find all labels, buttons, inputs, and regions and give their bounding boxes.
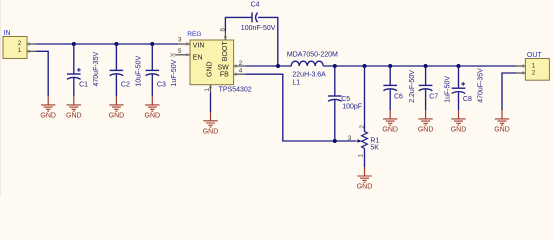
- pin 5 EN with no-connect X: [170, 48, 202, 61]
- svg-text:C3: C3: [157, 81, 166, 88]
- svg-text:100pF: 100pF: [342, 104, 362, 111]
- ground (R1): [357, 167, 373, 190]
- svg-text:100nF-50V: 100nF-50V: [241, 25, 276, 32]
- ground (C2): [109, 96, 125, 119]
- svg-text:3: 3: [178, 37, 182, 44]
- junction C2 on input rail: [114, 42, 118, 46]
- ground (C8): [451, 110, 467, 133]
- svg-text:10uF-50V: 10uF-50V: [135, 55, 142, 86]
- inductor L1 MDA7050-220M: [287, 52, 338, 87]
- capacitor C1 470uF-35V polarized: [67, 44, 100, 96]
- svg-text:22uH-3.6A: 22uH-3.6A: [292, 72, 326, 79]
- svg-text:REG: REG: [187, 31, 201, 38]
- svg-text:C2: C2: [121, 81, 130, 88]
- ground (regulator): [203, 112, 219, 135]
- potentiometer R1 5K: [348, 66, 380, 167]
- svg-text:5K: 5K: [370, 145, 379, 152]
- wire FB to potentiometer wiper: [246, 74, 357, 141]
- svg-text:2.2uF-50V: 2.2uF-50V: [409, 70, 416, 103]
- capacitor C4 100nF-50V bootstrap: [225, 2, 277, 66]
- wire SW to inductor: [246, 65, 292, 67]
- pin 2 of IN: [18, 40, 37, 47]
- svg-text:1uF-50V: 1uF-50V: [171, 59, 178, 86]
- pin 1 of OUT: [516, 63, 536, 70]
- pin 3 VIN: [178, 37, 204, 50]
- svg-text:2: 2: [18, 40, 22, 47]
- svg-text:1: 1: [532, 63, 536, 70]
- ground (OUT pin2): [494, 110, 510, 133]
- svg-text:C6: C6: [394, 94, 403, 101]
- capacitor C3 1uF-50V: [146, 44, 179, 96]
- svg-text:470uF-35V: 470uF-35V: [477, 68, 484, 103]
- wire OUT pin2 to ground: [502, 73, 516, 110]
- junction C5 bottom on FB wire: [333, 139, 337, 143]
- ground (C6): [382, 110, 398, 133]
- pin 6 BOOT: [220, 28, 229, 62]
- junction C1 on input rail: [72, 42, 76, 46]
- svg-text:3: 3: [348, 135, 352, 142]
- svg-text:C1: C1: [79, 81, 88, 88]
- ground (IN pin1): [40, 96, 56, 119]
- svg-text:C4: C4: [251, 2, 260, 9]
- svg-text:C7: C7: [429, 94, 438, 101]
- svg-text:2: 2: [359, 125, 366, 129]
- junction C7: [424, 64, 428, 68]
- svg-text:IN: IN: [4, 30, 11, 37]
- svg-text:4: 4: [239, 67, 243, 74]
- ground (C1): [66, 96, 82, 119]
- wire output rail: [323, 65, 516, 67]
- junction C6: [388, 64, 392, 68]
- junction C5 top: [333, 64, 337, 68]
- wire regulator GND pin down: [210, 93, 212, 112]
- svg-text:EN: EN: [193, 54, 203, 61]
- pin 1 GND of regulator: [204, 61, 214, 93]
- svg-text:FB: FB: [220, 71, 229, 78]
- ground (C3): [145, 96, 161, 119]
- junction C3 on input rail: [150, 42, 154, 46]
- capacitor C7 1uF-50V: [419, 66, 452, 110]
- svg-text:1: 1: [18, 47, 22, 54]
- capacitor C5 100pF feedforward: [328, 66, 362, 141]
- svg-text:MDA7050-220M: MDA7050-220M: [287, 52, 338, 59]
- svg-text:VIN: VIN: [193, 43, 205, 50]
- ground (C7): [418, 110, 434, 133]
- pin 2 of OUT: [516, 70, 536, 77]
- capacitor C2 10uF-50V: [110, 44, 143, 96]
- svg-text:5: 5: [178, 48, 182, 55]
- junction SW node: [276, 64, 280, 68]
- svg-text:C8: C8: [463, 96, 472, 103]
- wire input rail VIN: [37, 43, 179, 45]
- connector IN: [3, 30, 27, 59]
- svg-text:1: 1: [204, 88, 211, 92]
- svg-text:1uF-50V: 1uF-50V: [444, 76, 451, 103]
- pin 2 SW: [218, 60, 246, 71]
- svg-text:L1: L1: [292, 80, 300, 87]
- svg-text:OUT: OUT: [527, 52, 543, 59]
- wire IN pin1 to ground: [37, 51, 49, 96]
- svg-text:2: 2: [532, 70, 536, 77]
- junction C8: [457, 64, 461, 68]
- svg-text:470uF-35V: 470uF-35V: [93, 52, 100, 87]
- regulator U1 TPS54302 body: [187, 31, 252, 93]
- svg-text:C5: C5: [341, 96, 350, 103]
- svg-text:BOOT: BOOT: [222, 41, 229, 62]
- capacitor C6 2.2uF-50V: [383, 66, 416, 110]
- pin 4 FB: [220, 67, 246, 78]
- svg-text:TPS54302: TPS54302: [219, 86, 252, 93]
- svg-text:GND: GND: [206, 61, 213, 77]
- connector OUT: [525, 52, 549, 80]
- capacitor C8 470uF-35V polarized: [452, 66, 485, 110]
- junction R1 top: [363, 64, 367, 68]
- faint left edge line: [0, 0, 1, 195]
- pin 1 of IN: [18, 47, 37, 54]
- svg-text:2: 2: [239, 60, 243, 67]
- svg-text:1: 1: [358, 154, 365, 158]
